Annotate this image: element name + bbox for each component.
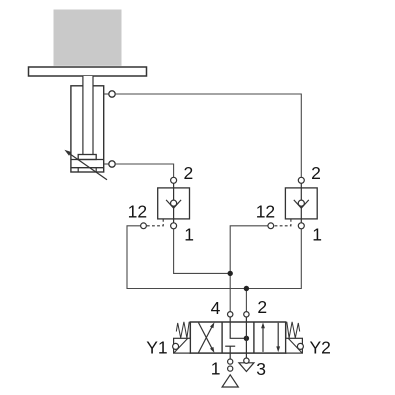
svg-text:3: 3 bbox=[256, 359, 266, 379]
svg-text:Y1: Y1 bbox=[146, 338, 167, 358]
svg-text:Y2: Y2 bbox=[310, 338, 331, 358]
svg-text:4: 4 bbox=[211, 298, 221, 318]
svg-text:1: 1 bbox=[211, 359, 221, 379]
svg-text:2: 2 bbox=[311, 163, 321, 183]
svg-text:2: 2 bbox=[257, 297, 267, 317]
svg-text:1: 1 bbox=[312, 225, 322, 245]
svg-text:1: 1 bbox=[184, 225, 194, 245]
svg-text:12: 12 bbox=[128, 202, 147, 222]
svg-text:12: 12 bbox=[256, 202, 275, 222]
svg-text:2: 2 bbox=[184, 163, 194, 183]
